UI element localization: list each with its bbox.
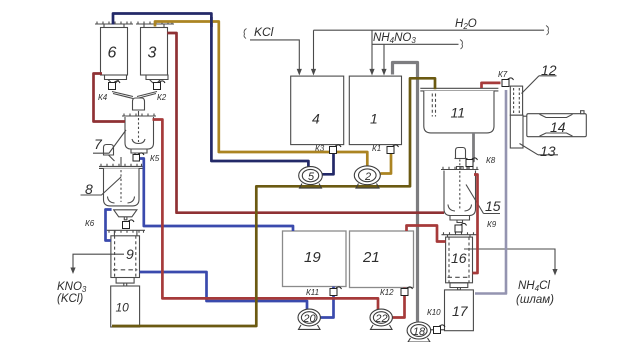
tank 6 bbox=[95, 22, 133, 84]
svg-text:9: 9 bbox=[126, 246, 134, 262]
blue pipe: pump 20 to K11 to box 19 bbox=[320, 287, 333, 318]
product leader + arrow KNO3 bbox=[73, 254, 124, 268]
lavender pipe: item 13 to tank 17 bbox=[475, 90, 506, 294]
svg-text:К2: К2 bbox=[157, 93, 167, 102]
svg-text:К4: К4 bbox=[98, 93, 108, 102]
svg-text:16: 16 bbox=[451, 250, 467, 266]
svg-text:NH4Cl: NH4Cl bbox=[518, 280, 550, 293]
svg-text:8: 8 bbox=[85, 181, 93, 197]
maroon pipe: tank 6 bottom to vessel 7 bbox=[94, 74, 126, 122]
wire navy patch over olive crossing bbox=[210, 17, 213, 27]
valve K4 bbox=[109, 81, 121, 90]
svg-text:К1: К1 bbox=[372, 144, 381, 153]
svg-text:NH4NO3: NH4NO3 bbox=[373, 32, 416, 45]
svg-text:12: 12 bbox=[541, 62, 557, 78]
svg-text:20: 20 bbox=[302, 313, 316, 325]
svg-text:1: 1 bbox=[370, 111, 378, 127]
filter item 12 bbox=[510, 86, 522, 115]
valve K10 bbox=[431, 325, 445, 334]
valve K3 bbox=[330, 145, 342, 154]
mixer vessel 8 bbox=[99, 157, 143, 220]
chemical stream labels bbox=[57, 18, 554, 306]
svg-text:К7: К7 bbox=[498, 70, 508, 79]
red pipe: pump 22 to K12 to box 21 bbox=[392, 288, 404, 318]
funnel from K4/K2 into mixer 7 bbox=[112, 92, 157, 99]
navy pipe: pump 5 discharge to tank 6 top bbox=[113, 14, 308, 167]
valve K5 bbox=[133, 153, 144, 161]
leader line label 12 bbox=[522, 76, 557, 94]
svg-text:К6: К6 bbox=[85, 219, 95, 228]
leader label 7 bbox=[93, 130, 126, 153]
svg-text:13: 13 bbox=[540, 143, 556, 159]
motor of mixer 7 bbox=[133, 98, 145, 110]
svg-text:11: 11 bbox=[451, 105, 466, 121]
motor of mixer 8 bbox=[104, 145, 114, 156]
pump 20 bbox=[298, 309, 320, 329]
dark olive pipe: tank 10 bottom to tank 11 top bbox=[112, 78, 435, 326]
valve K6 bbox=[123, 220, 135, 229]
item 13 bbox=[510, 115, 523, 148]
maroon pipe: tank 3 to vessel 15 bbox=[167, 33, 444, 213]
svg-text:19: 19 bbox=[304, 249, 321, 266]
valve K11 bbox=[330, 287, 342, 296]
svg-text:(KCl): (KCl) bbox=[57, 293, 83, 305]
red pipe: box 21 top to vessel 16 bbox=[407, 226, 446, 242]
pump 5 bbox=[299, 167, 323, 189]
crystallizer vessel 16 (jacketed) bbox=[442, 232, 479, 290]
blue pipe: vessel 8 bottom to vessel 9 side bbox=[106, 210, 112, 241]
tank 3 bbox=[136, 22, 174, 84]
red pipe: K7 to tank 11 top bbox=[482, 83, 501, 88]
blue pipe: vessel 9 to pump 20 bbox=[140, 272, 308, 312]
valve K1 bbox=[387, 145, 399, 154]
svg-text:К8: К8 bbox=[486, 156, 496, 165]
svg-text:17: 17 bbox=[452, 303, 469, 319]
crystallizer box 19 bbox=[283, 231, 347, 287]
gray pipe: tank 11 bottom to K8/vessel 15 bbox=[469, 133, 474, 169]
valve K2 bbox=[154, 81, 166, 90]
mixer vessel 7 bbox=[122, 111, 156, 153]
svg-text:4: 4 bbox=[312, 111, 320, 127]
svg-text:К10: К10 bbox=[427, 308, 441, 317]
svg-text:KCl: KCl bbox=[254, 25, 274, 39]
crystallizer vessel 9 (jacketed) bbox=[107, 230, 145, 286]
valve K7 bbox=[502, 78, 514, 87]
svg-text:18: 18 bbox=[413, 326, 426, 338]
svg-text:21: 21 bbox=[362, 249, 380, 266]
svg-text:22: 22 bbox=[374, 313, 387, 325]
valve K9 bbox=[455, 223, 467, 232]
svg-text:10: 10 bbox=[116, 301, 130, 315]
svg-text:7: 7 bbox=[94, 136, 103, 152]
mixer vessel 15 bbox=[441, 160, 479, 223]
KCl feed line + arrow bbox=[250, 40, 299, 70]
svg-text:К11: К11 bbox=[306, 288, 319, 297]
red pipe: vessel 7 to pump 22 bbox=[153, 120, 379, 312]
leader line label 13 bbox=[520, 144, 559, 155]
tank 10 bbox=[111, 286, 140, 327]
H2O feed line + arrows bbox=[314, 30, 545, 69]
gray pipe: pump 18 to tank 1 top bbox=[393, 63, 418, 322]
svg-text:14: 14 bbox=[550, 119, 566, 135]
olive pipe: pump 2 discharge to tank 3 top bbox=[155, 22, 367, 167]
leader label 8 bbox=[81, 177, 122, 195]
tank 11 bbox=[420, 88, 498, 133]
dissolver tank 1 bbox=[349, 76, 401, 145]
pump 18 bbox=[407, 322, 431, 342]
svg-text:3: 3 bbox=[148, 45, 157, 62]
valve K8 bbox=[466, 158, 478, 167]
red pipe: vessel 15 side to vessel 16 side bbox=[473, 175, 478, 274]
NH4Cl leader + arrow bbox=[464, 249, 555, 270]
svg-text:6: 6 bbox=[108, 45, 117, 62]
navy pipe: K3 to pump 5 inlet bbox=[323, 152, 334, 174]
NH4NO3 feed line + arrow bbox=[373, 44, 459, 69]
blue pipe: K5 outlet to box 19 bbox=[139, 159, 293, 232]
tank 17 bbox=[445, 290, 474, 331]
dissolver tank 4 bbox=[291, 76, 344, 145]
crystallizer box 21 bbox=[350, 231, 414, 288]
leader label 15 bbox=[466, 185, 500, 214]
svg-text:К9: К9 bbox=[487, 220, 497, 229]
svg-text:5: 5 bbox=[308, 171, 315, 183]
pump 22 bbox=[370, 309, 392, 329]
svg-text:2: 2 bbox=[364, 171, 371, 183]
svg-text:К5: К5 bbox=[150, 154, 160, 163]
motor of mixer 15 bbox=[456, 148, 466, 159]
pump 2 bbox=[354, 166, 380, 188]
item 14 (trough) bbox=[523, 111, 586, 137]
olive pipe: K1 to pump 2 inlet bbox=[380, 152, 391, 174]
svg-text:(шлам): (шлам) bbox=[516, 294, 554, 306]
valve labels bbox=[85, 70, 508, 317]
valve K12 bbox=[401, 287, 413, 296]
svg-text:15: 15 bbox=[485, 198, 501, 214]
svg-text:К12: К12 bbox=[380, 288, 394, 297]
